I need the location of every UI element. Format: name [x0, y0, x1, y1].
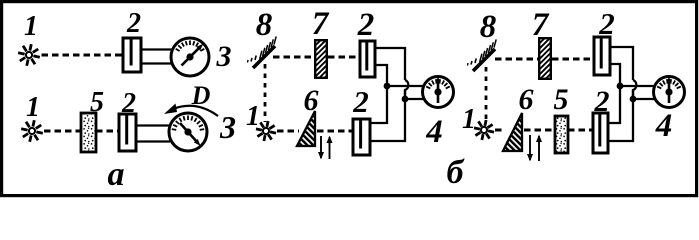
svg-text:1: 1: [462, 104, 476, 135]
svg-text:6: 6: [304, 84, 319, 117]
svg-text:б: б: [447, 154, 466, 191]
svg-text:1: 1: [24, 11, 38, 42]
svg-text:2: 2: [352, 84, 369, 119]
svg-text:8: 8: [256, 7, 273, 43]
svg-text:4: 4: [425, 114, 443, 150]
svg-text:5: 5: [90, 87, 104, 118]
svg-text:7: 7: [312, 6, 330, 42]
svg-text:2: 2: [594, 85, 610, 118]
svg-text:2: 2: [126, 8, 141, 39]
svg-text:3: 3: [216, 40, 232, 73]
svg-text:1: 1: [26, 92, 40, 123]
svg-text:2: 2: [598, 6, 615, 41]
svg-text:2: 2: [121, 88, 136, 119]
svg-text:7: 7: [532, 7, 550, 43]
svg-text:4: 4: [655, 108, 673, 144]
svg-text:6: 6: [519, 83, 534, 116]
svg-text:1: 1: [246, 101, 260, 132]
svg-text:8: 8: [480, 9, 497, 45]
svg-text:2: 2: [357, 7, 375, 43]
svg-text:а: а: [108, 156, 125, 193]
svg-text:3: 3: [219, 109, 236, 145]
svg-text:5: 5: [554, 83, 569, 116]
